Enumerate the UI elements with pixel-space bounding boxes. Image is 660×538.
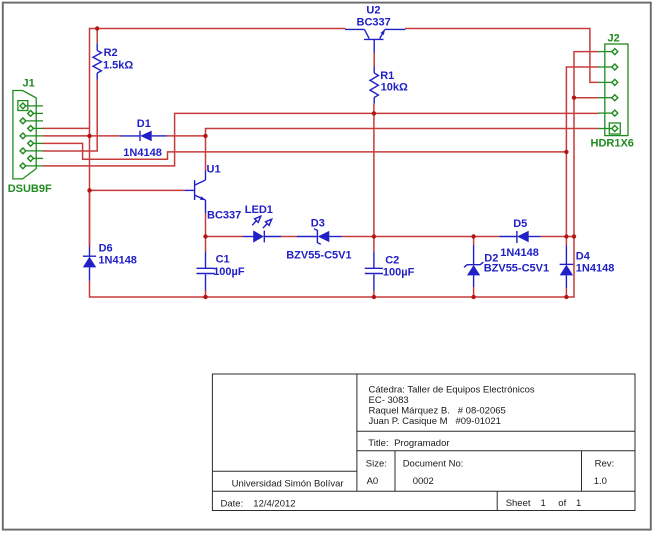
svg-text:D4: D4 (576, 251, 591, 263)
title block outer box (212, 374, 635, 511)
svg-text:Size:: Size: (366, 459, 387, 470)
connector J1 pin 5 (20, 133, 43, 139)
svg-text:of: of (558, 498, 566, 509)
connector J2 HDR1X6 outline (605, 44, 628, 136)
wire R2 top lead connection (96, 29, 98, 44)
zener diode D3 BZV55-C5V1 (286, 218, 351, 262)
connector J2 pin 3 (598, 79, 618, 85)
wire R1 bottom down to LED line and C2 (373, 104, 375, 252)
title block vertical divider left column (356, 374, 358, 491)
wire LED line segment b (LED1 to D3) (281, 236, 298, 238)
svg-text:C1: C1 (216, 254, 230, 266)
connector J2 pin 4 (598, 95, 618, 101)
connector J1 pin 8 (28, 156, 43, 162)
node right bus on LED line (572, 234, 576, 238)
connector J1 pin 7 (20, 148, 43, 154)
wire LED line segment a (U1 emitter node to LED1) (206, 236, 244, 238)
wire U1 collector up and across to J2 pin6 (206, 129, 599, 171)
transistor U2 BC337 (345, 5, 405, 53)
svg-text:1: 1 (576, 498, 581, 509)
node C2 on ground rail (372, 295, 376, 299)
svg-text:R2: R2 (104, 47, 118, 59)
wire U2 base to R1 top (373, 52, 375, 66)
title block vertical divider size/docno (394, 451, 396, 491)
wire vertical left bus x=89.5 (rail down to D6) (89, 28, 91, 247)
svg-text:Universidad Simón Bolívar: Universidad Simón Bolívar (232, 478, 344, 489)
node pin5 wire on left bus (87, 134, 91, 138)
svg-text:0002: 0002 (413, 476, 434, 487)
svg-text:100µF: 100µF (213, 266, 245, 278)
wire D4 bottom to ground rail (565, 288, 567, 297)
node R2 top on rail (95, 26, 99, 30)
svg-text:1N4148: 1N4148 (500, 247, 539, 259)
resistor R1 (370, 52, 408, 103)
diode D4 1N4148 (560, 246, 615, 289)
svg-text:Juan P. Casique M #09-01021: Juan P. Casique M #09-01021 (369, 416, 501, 427)
LED LED1 (243, 204, 281, 242)
svg-text:U1: U1 (207, 164, 221, 176)
svg-text:HDR1X6: HDR1X6 (591, 138, 634, 150)
wire D6 top from U1 base line (89, 190, 91, 246)
title block horizontal catedra/title (357, 430, 635, 432)
wire C2 bottom to ground rail (373, 291, 375, 298)
svg-text:R1: R1 (380, 70, 394, 82)
wire U1 emitter down to LED line (205, 213, 207, 237)
svg-text:BZV55-C5V1: BZV55-C5V1 (286, 250, 351, 262)
node R1 bottom on J2 pin5 wire (372, 111, 376, 115)
svg-text:12/4/2012: 12/4/2012 (253, 498, 295, 509)
diode D1 1N4148 (121, 118, 167, 159)
svg-text:1N4148: 1N4148 (98, 254, 137, 266)
svg-text:Document No:: Document No: (403, 459, 464, 470)
wire D2 bottom to ground rail (473, 287, 475, 297)
svg-text:Rev:: Rev: (595, 459, 615, 470)
svg-text:1N4148: 1N4148 (576, 263, 615, 275)
node U1 base on left bus (87, 188, 91, 192)
wire DSUB pin9 up and across to J2 pin5 (43, 113, 599, 165)
svg-text:D5: D5 (513, 218, 527, 230)
connector J2 pin 2 (598, 64, 618, 70)
wire J2 pin2 down bus x=566.4 to D4 (566, 67, 598, 246)
svg-text:J2: J2 (608, 33, 620, 45)
svg-text:EC- 3083: EC- 3083 (369, 395, 409, 406)
wire DSUB pin4 to left bus (43, 127, 90, 129)
svg-text:Title:: Title: (368, 438, 388, 449)
title block horizontal universidad cell top (212, 470, 357, 472)
resistor R2 (93, 43, 133, 79)
diode D6 1N4148 (83, 242, 137, 280)
diode D5 1N4148 (499, 218, 540, 259)
svg-text:D1: D1 (137, 118, 151, 130)
connector J1 pin 4 (28, 126, 43, 132)
title block horizontal title/size (357, 450, 635, 452)
svg-text:D3: D3 (311, 218, 325, 230)
wire J2 pin4 to right bus (574, 97, 599, 99)
svg-text:J1: J1 (23, 78, 35, 90)
wire D1 anode to U1 collector bus (167, 135, 206, 137)
node D2 top on LED line (471, 234, 475, 238)
connector J2 pin 6 (square pin) (598, 123, 620, 134)
svg-text:LED1: LED1 (245, 204, 273, 216)
svg-text:10kΩ: 10kΩ (381, 81, 408, 93)
connector J1 pin 2 (28, 111, 43, 117)
svg-text:C2: C2 (385, 254, 399, 266)
connector J2 pin 1 (598, 49, 618, 55)
svg-text:1: 1 (541, 498, 546, 509)
wire bottom ground rail (90, 296, 575, 298)
node D4 on ground rail (564, 295, 568, 299)
title block vertical divider sheet row (496, 491, 498, 510)
svg-text:BZV55-C5V1: BZV55-C5V1 (484, 263, 549, 275)
wire D2 top from LED line (473, 237, 475, 246)
connector J1 pin 6 (28, 141, 43, 147)
node D1 anode on U1 collector bus (203, 134, 207, 138)
svg-text:A0: A0 (367, 476, 379, 487)
wire LED line segment c (D3 to D5 with taps) (342, 236, 499, 238)
svg-text:Sheet: Sheet (506, 498, 531, 509)
node C1 on ground rail (203, 295, 207, 299)
wire D6 bottom to ground rail (89, 281, 91, 298)
node D4 top on LED line (564, 234, 568, 238)
svg-text:100µF: 100µF (383, 267, 415, 279)
svg-text:U2: U2 (366, 5, 380, 17)
node U1 emitter / LED line / C1 (203, 234, 207, 238)
svg-text:Cátedra: Taller de Equipos Ele: Cátedra: Taller de Equipos Electrónicos (369, 384, 535, 395)
wire top rail left segment (V+ rail to U2 collector) (90, 28, 346, 30)
title block horizontal bottom row top (212, 490, 635, 492)
wire DSUB pin6 jog down (43, 143, 567, 159)
node pin6 wire on J2 pin2 bus (564, 150, 568, 154)
connector J1 pin 1 (square pin) (18, 101, 43, 111)
connector J1 pin 9 (20, 163, 43, 169)
node R1-C2 on LED line (372, 234, 376, 238)
svg-text:BC337: BC337 (207, 209, 241, 221)
svg-text:1N4148: 1N4148 (123, 147, 162, 159)
wire C1 top from LED line node (205, 237, 207, 252)
capacitor C1 100uF (197, 252, 245, 291)
svg-text:1.5kΩ: 1.5kΩ (103, 59, 133, 71)
node J2 pin4 on right bus (572, 96, 576, 100)
transistor U1 BC337 (185, 164, 242, 222)
wire LED line segment d (D5 to right bus) (541, 236, 575, 238)
wire J2 pin1 down right bus x=574 (574, 52, 599, 298)
svg-text:Date:: Date: (221, 498, 244, 509)
wire J2 pin3 from top rail (590, 28, 599, 83)
svg-text:Programador: Programador (394, 438, 449, 449)
svg-text:Raquel Márquez B. # 08-02065: Raquel Márquez B. # 08-02065 (369, 405, 506, 416)
zener diode D2 BZV55-C5V1 (464, 245, 549, 287)
svg-text:1.0: 1.0 (594, 476, 607, 487)
connector J1 pin 3 (20, 118, 43, 124)
connector J2 pin 5 (598, 110, 618, 116)
title block vertical divider docno/rev (581, 451, 583, 491)
svg-text:BC337: BC337 (357, 16, 391, 28)
svg-text:D6: D6 (99, 242, 113, 254)
node D2 on ground rail (471, 295, 475, 299)
wire U1 base from left bus (90, 189, 185, 191)
wire DSUB pin5 to D1 cathode (43, 135, 121, 137)
capacitor C2 100uF (365, 252, 415, 291)
connector J1 DSUB9F outline (13, 91, 36, 179)
svg-text:DSUB9F: DSUB9F (8, 183, 52, 195)
wire R2 bottom to DSUB pin7 corner (43, 80, 98, 152)
wire top rail right segment (U2 emitter to J2 pin3 corner) (405, 28, 590, 30)
wire C1 bottom to ground rail (205, 291, 207, 298)
